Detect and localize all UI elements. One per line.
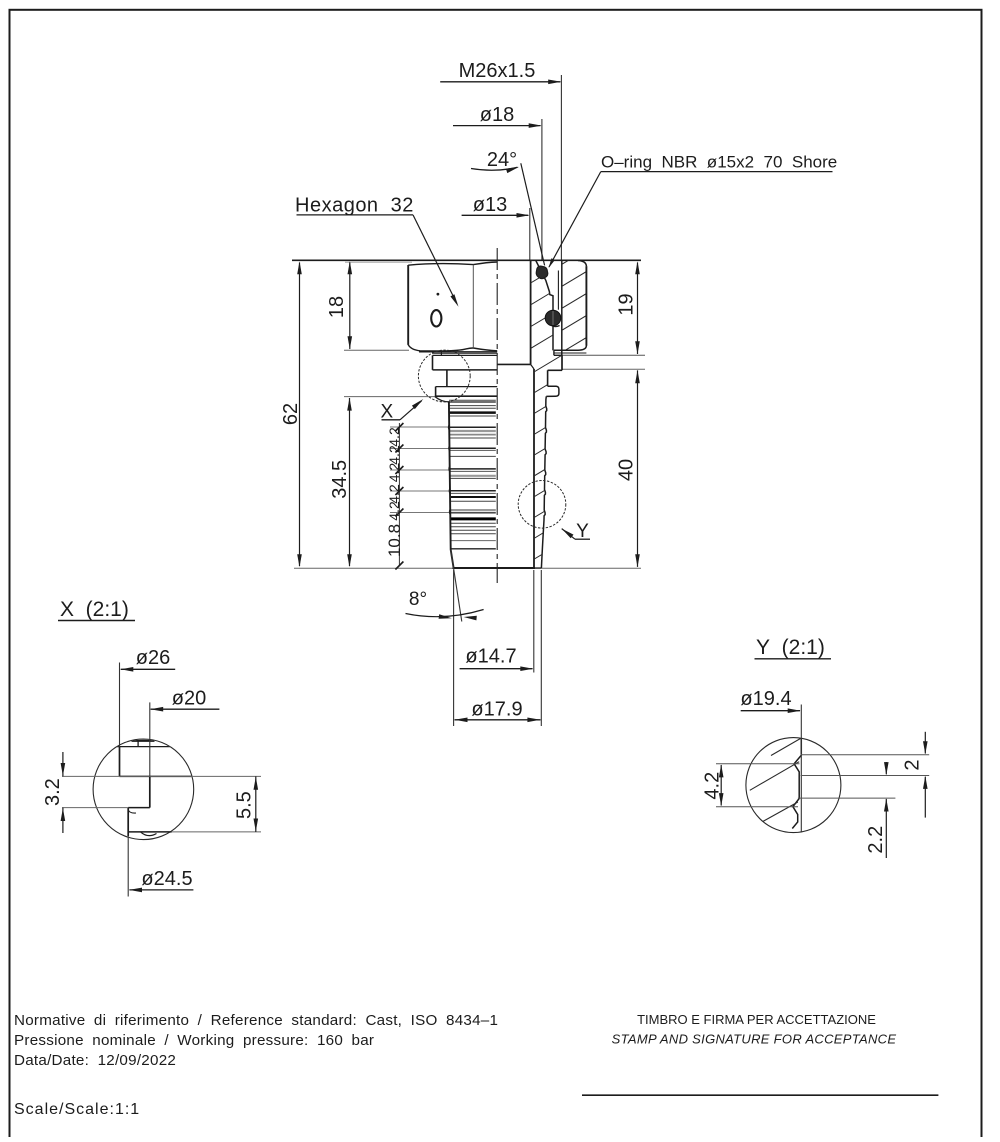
collar right edge dia26 xyxy=(561,355,563,370)
svg-text:ø19.4: ø19.4 xyxy=(740,688,791,710)
svg-text:ø20: ø20 xyxy=(172,688,206,710)
seal cone and groove profile xyxy=(536,261,553,351)
detail X dia24.5 wall xyxy=(127,808,129,836)
19 bottom extension line right xyxy=(562,354,645,356)
extension line M26 (x=561.4) xyxy=(560,75,562,260)
collar top right y=355.3 xyxy=(554,354,562,356)
detail Y ext line 2-top xyxy=(801,754,930,756)
40 top extension line right xyxy=(562,368,645,370)
dia17.9 extension left xyxy=(453,570,455,726)
svg-text:TIMBRO E FIRMA PER ACCETTAZION: TIMBRO E FIRMA PER ACCETTAZIONE xyxy=(637,1012,876,1027)
faint hex top chamfer edge xyxy=(345,261,412,263)
dimension 62 overall length xyxy=(299,263,301,567)
svg-text:Scale/Scale:1:1: Scale/Scale:1:1 xyxy=(14,1101,140,1118)
hex left silhouette edge xyxy=(407,265,409,345)
svg-text:4.2: 4.2 xyxy=(386,427,402,447)
barb tip bottom right xyxy=(535,567,541,569)
bore step jog xyxy=(531,364,534,369)
stamp mark 0 on hex flat xyxy=(431,310,441,326)
detail circle Y on main view xyxy=(518,481,566,529)
detail X chamfer arc xyxy=(128,810,136,813)
signature line xyxy=(582,1094,938,1096)
svg-text:STAMP AND SIGNATURE FOR ACCEPT: STAMP AND SIGNATURE FOR ACCEPTANCE xyxy=(612,1032,897,1047)
detail X collar wall dia26 xyxy=(119,747,121,777)
dimension 40 right xyxy=(637,370,639,567)
svg-text:19: 19 xyxy=(615,293,637,315)
svg-text:34.5: 34.5 xyxy=(329,460,351,499)
svg-text:ø18: ø18 xyxy=(480,104,514,126)
detail X dia24.5 bottom xyxy=(128,831,171,833)
bore wall dia14.7 section xyxy=(533,369,535,568)
detail Y dim 2.2 xyxy=(885,762,887,774)
svg-text:4.2: 4.2 xyxy=(386,484,402,504)
34.5 top extension line y=396.6 xyxy=(344,396,450,398)
hex top chamfer arcs xyxy=(408,262,497,265)
hex bottom chamfer arcs xyxy=(408,345,497,351)
hex right top chamfer xyxy=(578,261,586,267)
detail X circle boundary xyxy=(93,739,194,840)
svg-text:Y (2:1): Y (2:1) xyxy=(756,636,825,659)
detail Y dim 2 xyxy=(924,732,926,754)
svg-text:18: 18 xyxy=(326,296,348,318)
detail Y circle boundary xyxy=(746,738,841,833)
detail X collar bottom xyxy=(120,775,192,777)
extension line dia18 (x=541.9) xyxy=(541,119,543,260)
o-ring groove bottom arc xyxy=(547,321,559,326)
svg-text:Data/Date: 12/09/2022: Data/Date: 12/09/2022 xyxy=(14,1052,176,1069)
detail circle X on main view xyxy=(418,350,470,402)
hex-bottom extension line left xyxy=(344,349,409,351)
serration lead-in chamfer curve xyxy=(435,397,449,402)
collar bottom edge y=369.9 xyxy=(433,369,498,371)
serration knuckle bumps xyxy=(447,424,450,430)
vertical centerline (dash-dot) xyxy=(496,248,498,583)
small dot on hex flat xyxy=(437,293,440,296)
o-ring seal lower (section, black) xyxy=(545,310,561,326)
svg-text:4.2: 4.2 xyxy=(386,445,402,465)
svg-text:2.2: 2.2 xyxy=(865,826,887,854)
svg-text:ø17.9: ø17.9 xyxy=(471,698,522,720)
svg-text:ø13: ø13 xyxy=(473,194,507,216)
hex-collar step right xyxy=(553,350,555,355)
barb right outer edge section xyxy=(541,396,546,568)
dia17.9 extension right xyxy=(540,570,542,726)
dimension chain 4.2 serration pitch xyxy=(398,423,400,566)
svg-text:5.5: 5.5 xyxy=(233,791,255,819)
svg-text:M26x1.5: M26x1.5 xyxy=(459,60,536,82)
barb left tapered edge xyxy=(449,402,454,568)
groove wall right dia20 xyxy=(547,370,549,386)
dia24.5 left edge xyxy=(435,387,437,397)
detail X ext gray line upper xyxy=(62,775,261,777)
detail X ext gray line step xyxy=(62,807,128,809)
taper edge extension left xyxy=(451,550,462,622)
leader line hexagon to hex flat xyxy=(413,215,457,304)
label Y leader on main view xyxy=(562,529,574,539)
svg-text:ø14.7: ø14.7 xyxy=(465,646,516,668)
detail X step dia24.5 top xyxy=(128,807,150,809)
barb serration rings external view xyxy=(449,399,496,401)
dia14.7 extension line xyxy=(533,570,535,673)
detail Y ext line 4.2-bottom xyxy=(716,806,798,808)
svg-text:40: 40 xyxy=(616,459,638,481)
svg-text:Normative di riferimento / Ref: Normative di riferimento / Reference sta… xyxy=(14,1012,498,1029)
svg-text:4.2: 4.2 xyxy=(386,501,402,521)
detail X groove wall dia20 xyxy=(149,776,151,807)
hex face boundary line xyxy=(472,265,474,348)
detail Y ext line 2-bottom xyxy=(801,775,930,777)
hex washer line 1 xyxy=(419,351,497,353)
detail Y dim 4.2 xyxy=(720,765,722,806)
hex right bottom chamfer xyxy=(578,345,586,350)
leader line o-ring to seal xyxy=(549,172,601,267)
serration tooth dia24.5 right xyxy=(546,386,559,396)
groove wall dia20 left xyxy=(446,370,448,387)
neck tick at hex-collar xyxy=(440,351,442,356)
collar top edge y=355.4 xyxy=(433,354,498,356)
collar left edge dia26 xyxy=(432,355,434,370)
dimension 19 right xyxy=(637,263,639,355)
detail X dim 3.2 xyxy=(62,752,64,776)
bottom extension line y=568.2 xyxy=(294,567,641,569)
bore wall dia13 section xyxy=(530,260,532,364)
svg-text:2: 2 xyxy=(902,759,924,770)
svg-text:62: 62 xyxy=(280,403,302,425)
svg-text:O–ring NBR ø15x2 70 Shore: O–ring NBR ø15x2 70 Shore xyxy=(601,153,837,172)
hex bottom right edge xyxy=(554,349,579,351)
detail Y ext line 4.2-top xyxy=(716,763,800,765)
barb bottom face edge xyxy=(453,567,536,569)
top face edge line y=260.3 xyxy=(292,259,641,261)
svg-text:X (2:1): X (2:1) xyxy=(60,598,129,621)
thread minor line xyxy=(557,271,559,310)
dia24.5 bottom edge y=396.2 xyxy=(435,395,497,397)
svg-text:Hexagon 32: Hexagon 32 xyxy=(295,195,414,217)
svg-text:Pressione nominale / Working p: Pressione nominale / Working pressure: 1… xyxy=(14,1032,374,1049)
detail X dim 5.5 xyxy=(255,776,257,832)
hex right outer edge xyxy=(585,266,587,345)
dia24.5 top edge y=386.6 xyxy=(436,386,498,388)
hex washer right line xyxy=(554,352,587,354)
hex washer line 2 xyxy=(432,352,497,354)
svg-text:ø24.5: ø24.5 xyxy=(141,868,192,890)
svg-text:ø26: ø26 xyxy=(136,647,170,669)
svg-text:Y: Y xyxy=(576,521,589,542)
collar bottom right y=370.3 xyxy=(548,369,562,371)
thread major line M26 xyxy=(561,261,563,356)
svg-text:4.2: 4.2 xyxy=(386,463,402,483)
o-ring seal upper (section, black) xyxy=(536,266,548,279)
detail X serration arc xyxy=(141,832,157,836)
detail X ext gray line bottom xyxy=(172,831,262,833)
detail Y ext line 2.2-bottom xyxy=(798,797,896,799)
bore step shoulder y=364.4 xyxy=(497,363,530,365)
leader line 24deg to cone xyxy=(521,163,545,265)
svg-text:4.2: 4.2 xyxy=(701,772,723,800)
svg-text:3.2: 3.2 xyxy=(42,778,64,806)
8 degree arc with arrows xyxy=(406,610,484,617)
dimension 34.5 barb length xyxy=(349,398,351,566)
svg-text:10.8: 10.8 xyxy=(385,524,404,557)
dimension 18 hex height xyxy=(349,263,351,350)
svg-text:8°: 8° xyxy=(409,589,427,610)
extension line dia13 (x=529.8) xyxy=(529,208,531,260)
